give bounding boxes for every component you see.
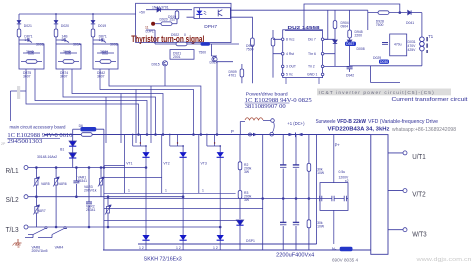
svg-text:1 2: 1 2 xyxy=(139,246,144,250)
svg-text:3007: 3007 xyxy=(23,75,31,79)
svg-text:3048: 3048 xyxy=(26,50,34,54)
svg-text:3048: 3048 xyxy=(63,50,71,54)
svg-text:P: P xyxy=(231,129,234,134)
svg-text:Current transformer circuit: Current transformer circuit xyxy=(392,97,469,103)
svg-text:0.5u: 0.5u xyxy=(339,170,346,174)
svg-text:Tri 2: Tri 2 xyxy=(308,65,315,69)
svg-text:10W: 10W xyxy=(317,171,325,175)
svg-text:W/T3: W/T3 xyxy=(412,230,427,239)
svg-text:T/L3: T/L3 xyxy=(6,225,19,234)
svg-text:VT3: VT3 xyxy=(201,162,207,166)
svg-text:1N44 3701: 1N44 3701 xyxy=(152,5,169,9)
svg-text:VAR7: VAR7 xyxy=(37,209,46,213)
svg-text:D919: D919 xyxy=(168,15,176,19)
svg-text:DPH7: DPH7 xyxy=(204,24,217,30)
svg-text:D6: D6 xyxy=(79,124,83,128)
svg-text:30148-16Ax2: 30148-16Ax2 xyxy=(37,155,57,159)
svg-text:D021: D021 xyxy=(24,24,32,28)
svg-text:8 Vcc: 8 Vcc xyxy=(286,38,295,42)
svg-text:VAR4: VAR4 xyxy=(55,246,64,250)
svg-text:Sunweele: Sunweele xyxy=(316,119,336,125)
svg-text:GND 1: GND 1 xyxy=(307,73,317,77)
svg-text:D920: D920 xyxy=(160,18,168,22)
svg-text:2200: 2200 xyxy=(355,34,363,38)
svg-text:D008: D008 xyxy=(357,47,365,51)
svg-text:0904: 0904 xyxy=(341,25,349,29)
svg-text:300A: 300A xyxy=(73,43,82,47)
svg-text:D041: D041 xyxy=(406,21,414,25)
svg-text:D020: D020 xyxy=(61,24,69,28)
svg-text:T1: T1 xyxy=(428,34,434,39)
svg-text:DSP1: DSP1 xyxy=(246,239,255,243)
svg-text:7500: 7500 xyxy=(199,51,207,55)
svg-text:Thyristor turn-on signal: Thyristor turn-on signal xyxy=(131,33,204,44)
svg-text:200V/1kx5: 200V/1kx5 xyxy=(32,249,48,253)
svg-text:3 OUT: 3 OUT xyxy=(286,65,296,69)
svg-text:D914: D914 xyxy=(210,60,218,64)
svg-text:690V 8035 4: 690V 8035 4 xyxy=(332,257,359,262)
svg-text:Dis 7: Dis 7 xyxy=(308,38,316,42)
svg-text:VT1: VT1 xyxy=(126,162,132,166)
svg-text:25341: 25341 xyxy=(86,208,96,212)
svg-text:1: 1 xyxy=(128,189,130,193)
svg-text:SKKH 72/16Ex3: SKKH 72/16Ex3 xyxy=(144,257,182,263)
svg-text:D942: D942 xyxy=(346,74,354,78)
svg-text:whatsapp:+86-13689242098: whatsapp:+86-13689242098 xyxy=(392,127,456,133)
svg-text:470u: 470u xyxy=(394,43,402,47)
svg-text:2001: 2001 xyxy=(173,55,181,59)
svg-text:2200uF400Vx4: 2200uF400Vx4 xyxy=(276,253,314,259)
svg-text:IC&T inverter power circuit(C5: IC&T inverter power circuit(C5)-(C5) xyxy=(319,90,435,96)
svg-text:S/L2: S/L2 xyxy=(6,195,19,204)
svg-text:V/T2: V/T2 xyxy=(412,189,426,198)
svg-text:D030: D030 xyxy=(380,60,388,64)
svg-text:1: 1 xyxy=(202,189,204,193)
svg-text:300B: 300B xyxy=(36,43,45,47)
svg-text:1 2: 1 2 xyxy=(213,246,218,250)
svg-text:3W: 3W xyxy=(244,170,250,174)
svg-text:2P: 2P xyxy=(1,142,6,146)
svg-text:+5V: +5V xyxy=(139,11,146,15)
svg-text:1 2: 1 2 xyxy=(176,246,181,250)
svg-text:VFD-B 22kW: VFD-B 22kW xyxy=(337,119,366,125)
svg-text:main circuit accessory board: main circuit accessory board xyxy=(10,124,66,129)
svg-text:3811089907 00: 3811089907 00 xyxy=(245,103,286,110)
svg-text:2B: 2B xyxy=(62,38,67,42)
svg-text:DU2 14558: DU2 14558 xyxy=(288,25,321,30)
svg-text:2945001303: 2945001303 xyxy=(7,139,42,145)
svg-text:200V/1k: 200V/1k xyxy=(84,189,97,193)
svg-text:3007: 3007 xyxy=(60,75,68,79)
svg-text:10W: 10W xyxy=(317,225,325,229)
svg-text:Thr 6: Thr 6 xyxy=(308,52,316,56)
svg-text:VFD (Variable-frequency Drive: VFD (Variable-frequency Drive xyxy=(368,119,438,125)
svg-text:D019: D019 xyxy=(98,24,106,28)
svg-text:7500: 7500 xyxy=(246,48,254,52)
svg-text:14B: 14B xyxy=(99,38,106,42)
svg-text:5 Vc: 5 Vc xyxy=(286,73,293,77)
svg-text:VAR6: VAR6 xyxy=(58,182,67,186)
svg-text:www.dgjs.com.cn: www.dgjs.com.cn xyxy=(417,257,472,263)
svg-text:3W: 3W xyxy=(244,198,250,202)
svg-text:D915: D915 xyxy=(152,63,160,67)
svg-text:25341: 25341 xyxy=(78,179,88,183)
svg-text:3C2?: 3C2? xyxy=(100,50,108,54)
svg-text:VFD220B43A 34, 3kHz: VFD220B43A 34, 3kHz xyxy=(328,127,390,133)
svg-text:4701: 4701 xyxy=(229,74,237,78)
svg-text:4 Rst: 4 Rst xyxy=(286,52,294,56)
svg-text:VAR5: VAR5 xyxy=(41,182,50,186)
svg-text:R/L1: R/L1 xyxy=(6,166,19,175)
svg-text:U/T1: U/T1 xyxy=(412,152,426,161)
svg-text:N-: N- xyxy=(332,247,337,252)
svg-text:+1 (DC+): +1 (DC+) xyxy=(287,121,305,126)
svg-text:P+: P+ xyxy=(335,143,341,148)
svg-text:425V: 425V xyxy=(408,48,417,52)
svg-text:1C E102988 94V-0 0616: 1C E102988 94V-0 0616 xyxy=(7,132,73,139)
svg-text:D937: D937 xyxy=(346,42,354,46)
svg-text:B1: B1 xyxy=(60,148,64,152)
svg-text:3007: 3007 xyxy=(97,75,105,79)
svg-text:VT2: VT2 xyxy=(163,162,169,166)
svg-text:7500: 7500 xyxy=(376,23,384,27)
svg-text:1: 1 xyxy=(165,189,167,193)
svg-text:14B: 14B xyxy=(24,38,31,42)
svg-text:300B: 300B xyxy=(110,43,119,47)
svg-text:x2: x2 xyxy=(345,179,349,183)
